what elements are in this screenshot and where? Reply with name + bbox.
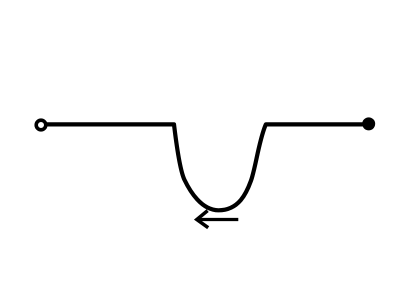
left terminal T1 (open circle) [36,120,46,130]
current direction arrow (head) [197,211,208,228]
right terminal T2 (filled dot) [362,117,375,130]
wire (main run with loop dip) [47,124,362,210]
current direction arrow (shaft) [199,218,239,221]
